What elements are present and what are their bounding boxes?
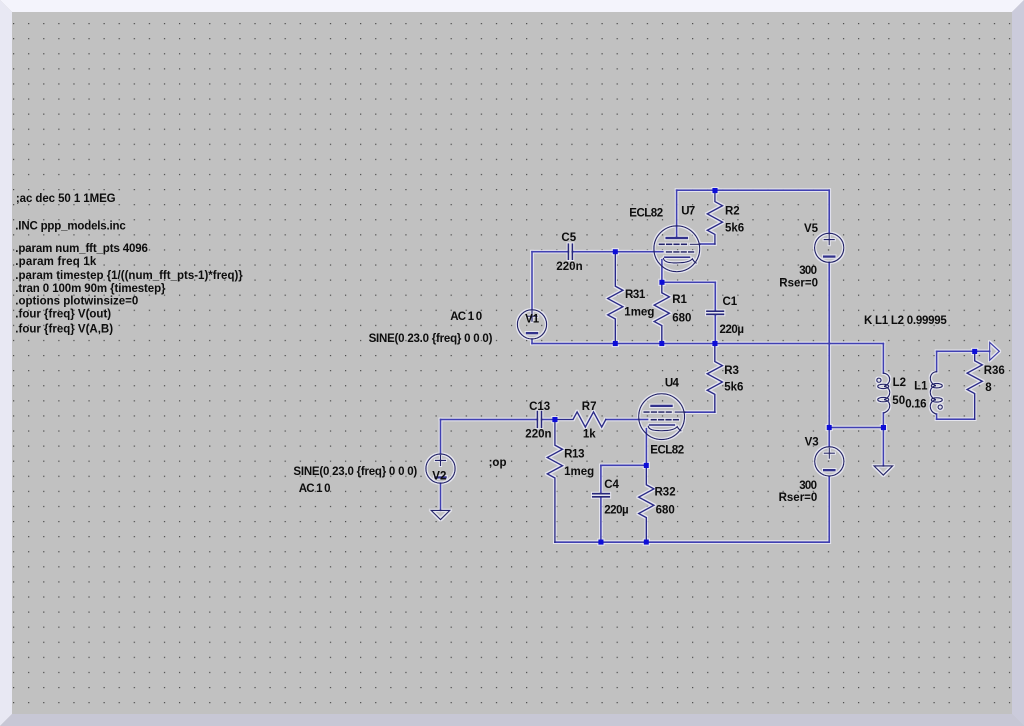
svg-text:.param timestep {1/((num_fft_p: .param timestep {1/((num_fft_pts-1)*freq… [15, 270, 243, 282]
junction [972, 349, 977, 354]
wire [606, 419, 648, 421]
svg-text:ECL82: ECL82 [629, 208, 662, 220]
svg-text:AC 1 0: AC 1 0 [299, 483, 330, 495]
ground (below V2) [431, 510, 450, 519]
svg-text:U7: U7 [681, 206, 695, 218]
svg-text:220n: 220n [556, 261, 582, 273]
svg-text:1k: 1k [583, 429, 596, 441]
svg-text:1meg: 1meg [624, 307, 654, 319]
svg-text:V5: V5 [804, 223, 819, 235]
wire [937, 350, 975, 352]
ground (below L2) [874, 466, 893, 475]
wire [937, 418, 975, 420]
wire [440, 483, 442, 510]
svg-text:C1: C1 [723, 296, 738, 308]
resistor R13 [547, 420, 562, 542]
wire [677, 189, 830, 191]
svg-text:.options plotwinsize=0: .options plotwinsize=0 [15, 296, 138, 308]
wire [572, 251, 663, 253]
svg-text:R3: R3 [724, 365, 739, 377]
wire [555, 541, 829, 543]
resistor R36 [967, 351, 982, 419]
voltage source V3 [815, 447, 844, 476]
capacitor C4 [593, 465, 610, 542]
svg-text:R32: R32 [655, 486, 676, 498]
junction [881, 425, 886, 430]
svg-text:;ac dec 50 1 1MEG: ;ac dec 50 1 1MEG [16, 193, 116, 205]
wire [441, 419, 538, 421]
svg-text:C13: C13 [529, 401, 550, 413]
svg-text:R13: R13 [564, 448, 584, 460]
junction [659, 280, 664, 285]
resistor R1 [654, 282, 669, 343]
svg-text:5k6: 5k6 [724, 382, 743, 394]
junction [827, 425, 832, 430]
output port arrow [990, 342, 1000, 360]
junction [712, 188, 717, 193]
wire [661, 260, 663, 283]
wire [936, 414, 938, 419]
svg-text:ECL82: ECL82 [650, 445, 683, 457]
pentode U4 (ECL82) [639, 394, 685, 440]
svg-text:SINE(0 23.0 {freq} 0 0 0): SINE(0 23.0 {freq} 0 0 0) [293, 466, 417, 478]
wire [828, 262, 830, 446]
voltage source V1 [517, 310, 546, 339]
voltage source V5 [815, 233, 844, 262]
wire [700, 243, 715, 245]
svg-text:R2: R2 [725, 206, 740, 218]
svg-text:680: 680 [672, 313, 691, 325]
voltage source V2 [426, 454, 455, 483]
svg-text:U4: U4 [665, 378, 680, 390]
svg-text:5k6: 5k6 [725, 223, 744, 235]
resistor R32 [639, 466, 654, 543]
wire [645, 429, 647, 466]
junction [552, 417, 557, 422]
svg-text:V3: V3 [805, 437, 819, 449]
wire [601, 464, 647, 466]
svg-text:.four {freq} V(out): .four {freq} V(out) [15, 308, 111, 320]
svg-text:R36: R36 [984, 365, 1005, 377]
junction [613, 249, 618, 254]
resistor R2 [707, 191, 722, 244]
junction [712, 341, 717, 346]
svg-text:300: 300 [799, 480, 816, 492]
svg-text:Rser=0: Rser=0 [779, 278, 818, 290]
svg-text:.INC ppp_models.inc: .INC ppp_models.inc [15, 220, 126, 232]
capacitor C5 [568, 244, 572, 259]
svg-text:300: 300 [799, 265, 816, 277]
junction [659, 341, 664, 346]
wire [975, 350, 990, 352]
capacitor C1 [707, 282, 724, 343]
capacitor C13 [537, 412, 541, 428]
svg-text:220µ: 220µ [604, 505, 628, 517]
wire [882, 413, 884, 428]
resistor R3 [707, 344, 722, 412]
svg-text:680: 680 [656, 505, 675, 517]
svg-text:V1: V1 [525, 314, 540, 326]
pentode U7 (ECL82) [654, 226, 700, 272]
wire [882, 428, 884, 466]
svg-text:AC 1 0: AC 1 0 [450, 311, 481, 323]
junction [644, 540, 649, 545]
svg-text:8: 8 [985, 382, 992, 394]
wire [676, 190, 678, 237]
wire [882, 344, 884, 374]
svg-text:R1: R1 [672, 294, 687, 306]
svg-text:K L1 L2 0.99995: K L1 L2 0.99995 [864, 315, 947, 327]
svg-text:C5: C5 [561, 232, 576, 244]
svg-text:220n: 220n [525, 429, 551, 441]
svg-text:0.16: 0.16 [905, 399, 926, 411]
resistor R7 [556, 412, 606, 427]
wire [828, 190, 830, 233]
svg-text:.param num_fft_pts 4096: .param num_fft_pts 4096 [15, 243, 148, 255]
svg-text:L1: L1 [914, 380, 928, 392]
wire [531, 339, 533, 344]
junction [598, 540, 603, 545]
svg-text:220µ: 220µ [720, 324, 744, 336]
svg-text:.param freq 1k: .param freq 1k [15, 256, 97, 268]
svg-text:1meg: 1meg [564, 466, 594, 478]
svg-text:R7: R7 [582, 401, 597, 413]
wire [440, 420, 442, 455]
svg-text:50: 50 [892, 395, 905, 407]
wire [662, 281, 715, 283]
wire [532, 343, 883, 345]
svg-text:;op: ;op [489, 457, 507, 469]
junction [613, 341, 618, 346]
inductor L1 [930, 372, 942, 414]
wire [542, 419, 555, 421]
wire [531, 252, 533, 310]
svg-text:SINE(0 23.0 {freq} 0 0 0): SINE(0 23.0 {freq} 0 0 0) [369, 333, 493, 345]
svg-text:.four {freq} V(A,B): .four {freq} V(A,B) [15, 324, 113, 336]
wire [828, 476, 830, 542]
inductor L2 [877, 373, 890, 413]
svg-text:V2: V2 [432, 471, 446, 483]
resistor R31 [608, 252, 623, 344]
svg-text:L2: L2 [893, 377, 906, 389]
svg-text:C4: C4 [604, 479, 619, 491]
junction [644, 463, 649, 468]
svg-text:.tran 0 100m 90m {timestep}: .tran 0 100m 90m {timestep} [15, 283, 166, 295]
wire [685, 411, 715, 413]
wire [936, 351, 938, 371]
svg-text:Rser=0: Rser=0 [779, 492, 818, 504]
wire [532, 251, 568, 253]
wire [829, 427, 883, 429]
svg-text:R31: R31 [625, 289, 646, 301]
